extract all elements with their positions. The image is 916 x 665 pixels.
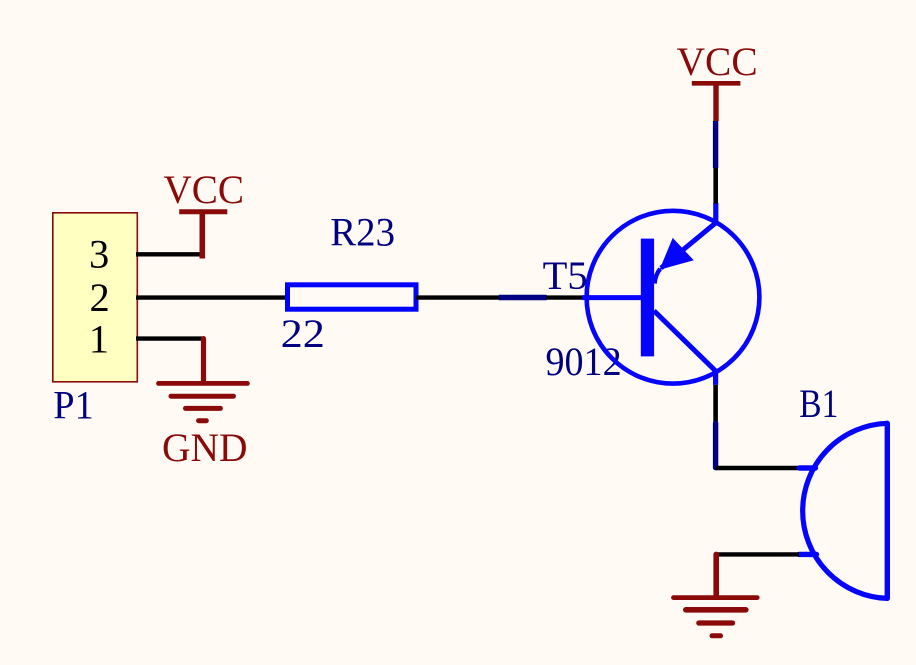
power port VCC (top): [692, 83, 741, 121]
svg-text:1: 1: [89, 316, 109, 361]
wire pin2 to R23: [136, 295, 286, 299]
wire segment (navy): [499, 295, 547, 300]
svg-text:22: 22: [281, 311, 325, 356]
svg-text:2: 2: [90, 275, 110, 320]
buzzer B1 body: [803, 423, 888, 598]
svg-text:3: 3: [89, 231, 109, 276]
wire VCC to emitter (navy): [713, 121, 718, 168]
base pin: [582, 295, 642, 300]
svg-text:VCC: VCC: [164, 167, 245, 212]
wire collector down (navy): [713, 423, 718, 467]
svg-text:9012: 9012: [546, 339, 622, 384]
emitter line: [661, 222, 716, 268]
ground GND (left): [159, 339, 248, 421]
resistor R23: [288, 285, 417, 309]
wire pin3 to VCC: [136, 252, 204, 256]
collector line: [654, 311, 716, 372]
wire to buzzer top: [716, 466, 800, 471]
buzzer bottom pin: [799, 552, 816, 557]
emitter tail: [655, 269, 661, 284]
connector P1 body: [53, 213, 138, 382]
wire collector down (black): [713, 385, 718, 424]
ground (bottom): [674, 554, 758, 635]
emitter arrow: [660, 238, 694, 270]
wire R23 to T5 (black segment): [416, 295, 499, 299]
svg-text:P1: P1: [53, 382, 93, 427]
collector pin stub: [713, 371, 718, 385]
svg-text:GND: GND: [162, 425, 248, 470]
wire segment (black): [546, 295, 582, 299]
emitter pin stub: [713, 203, 718, 223]
transistor body circle: [587, 211, 760, 384]
buzzer top pin: [799, 465, 815, 470]
svg-text:VCC: VCC: [677, 39, 758, 84]
wire buzzer to GND: [716, 552, 799, 556]
base bar: [641, 239, 654, 357]
wire pin1 to GND: [136, 336, 204, 340]
svg-text:B1: B1: [799, 381, 838, 426]
power port VCC (left): [179, 212, 227, 259]
svg-text:T5: T5: [543, 253, 588, 298]
transistor T5: [582, 203, 759, 385]
svg-text:R23: R23: [330, 210, 395, 255]
wire VCC to emitter (black): [713, 168, 718, 204]
